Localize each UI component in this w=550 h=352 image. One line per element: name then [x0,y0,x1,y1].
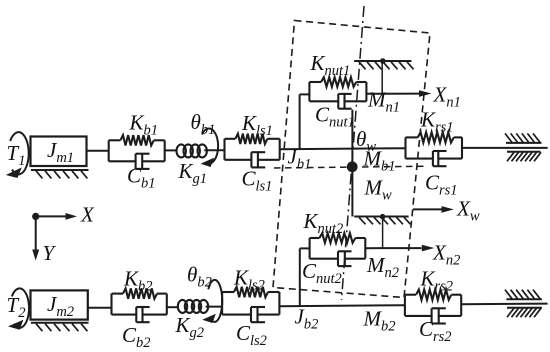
coil spring K_g1 [177,144,186,157]
damper C_rs1 [432,151,434,166]
wire stem ceiling to X_n1 line [381,61,383,94]
fixed wall right 2 [505,290,542,318]
wire [405,315,432,317]
wire [309,81,321,83]
wire [279,305,405,306]
bracket right of K_rs2/C_rs2 [460,295,462,316]
torque arrow T1 [6,132,29,178]
spring K_nut1 [321,77,356,87]
bracket right of K_nut2/C_nut2 [364,238,366,259]
spring K_b2 [123,288,157,298]
arrow X_n2 [422,245,435,252]
wire [310,237,320,239]
bracket left of K_nut1/C_nut1 [308,82,310,101]
wire [143,314,167,316]
spring K_nut2 [319,233,355,243]
damper C_b1 [135,154,137,169]
wire [366,93,420,95]
wire [355,237,365,239]
bracket right of K_b2/C_b2 [166,294,168,315]
wire [258,314,280,316]
wire screw link vertical [351,110,353,217]
wire [300,93,310,95]
node on ceiling 1 [380,58,386,64]
dash-dot screw axis [342,6,365,300]
damper C_nut1 [337,94,339,109]
wire [310,258,338,260]
svg-text:X: X [80,203,95,227]
wire [225,159,252,161]
bracket left of K_rs1/C_rs1 [404,137,406,158]
wire [222,291,234,293]
wire [438,158,462,160]
bracket left of K_rs2/C_rs2 [404,295,406,316]
wire [109,139,121,141]
wire [157,293,167,295]
ground under J_m2 [31,323,89,331]
wire [454,136,462,138]
coil spring K_g2 [178,300,187,313]
spring K_rs1 [418,132,454,142]
wire [258,159,280,161]
wire [439,315,462,317]
ground under J_m1 [31,170,89,178]
fixed wall right 1 [505,133,542,161]
spring K_ls2 [234,287,268,297]
rotation arrow theta_b2 [202,280,222,323]
wire [206,306,223,308]
bracket right of K_ls1/C_ls1 [279,139,281,160]
wire [154,139,165,141]
bracket right of K_nut1/C_nut1 [365,82,367,101]
arrow X_w [413,206,454,213]
wire [345,100,367,102]
wire [142,160,165,162]
origin node [32,213,39,220]
wire [88,307,112,309]
wire [406,136,418,138]
wire stem ceiling to X_n2 line [382,217,384,249]
arrow X_n1 [419,90,432,97]
damper C_b2 [135,307,137,322]
wire [222,314,251,316]
spring K_b1 [120,135,153,145]
wire [345,258,366,260]
wire [365,247,421,249]
spring K_ls1 [235,134,267,144]
ground ceiling above M_n2 [354,217,410,225]
wire [461,303,547,306]
wire [87,150,109,152]
wire [280,148,406,149]
wire [112,314,137,316]
damper C_ls1 [250,152,252,167]
rotation arrow theta_b1 [201,129,219,167]
wire [268,291,279,293]
wire [309,100,338,102]
bracket left of K_b2/C_b2 [110,294,112,315]
wire riser at J_b2 [299,248,301,306]
wire riser at J_b1 [299,94,301,149]
bracket left of K_nut2/C_nut2 [309,238,311,259]
bracket left of K_ls1/C_ls1 [223,139,225,160]
bracket left of K_ls2/C_ls2 [221,292,223,315]
damper C_rs2 [431,308,433,323]
bracket right of K_ls2/C_ls2 [278,292,280,315]
wire [204,149,224,151]
ground ceiling above M_n1 [354,61,413,69]
wire [405,294,416,296]
wire [462,147,548,149]
torque arrow T2 [8,288,29,329]
wire [109,160,136,162]
wire [165,149,178,151]
axis Y arrow [32,216,39,260]
wire [451,294,461,296]
wire [406,158,433,160]
wire [356,81,366,83]
node screw centre [347,161,358,172]
dashed screw boundary box [273,21,430,298]
wire [112,293,124,295]
wire [267,138,279,140]
bracket right of K_b1/C_b1 [164,140,166,161]
bracket left of K_b1/C_b1 [108,140,110,161]
mass J_m2 [31,290,88,320]
node on ceiling 2 [380,214,386,220]
dashed node line [274,166,428,168]
wire [300,247,310,249]
wire [167,306,179,308]
bracket right of K_rs1/C_rs1 [461,137,463,158]
damper C_ls2 [250,307,252,322]
axis X arrow [36,213,77,220]
wire [225,138,236,140]
spring K_rs2 [416,290,451,300]
damper C_nut2 [337,251,339,266]
mass J_m1 [31,137,87,167]
